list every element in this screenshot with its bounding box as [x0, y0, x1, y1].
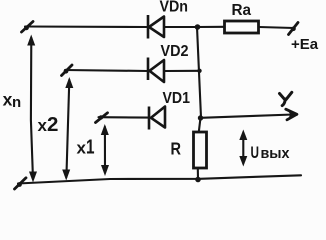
svg-text:+Ea: +Ea — [291, 36, 319, 53]
svg-text:вых: вых — [261, 145, 291, 162]
svg-text:x2: x2 — [38, 113, 59, 136]
svg-text:Ra: Ra — [232, 2, 252, 19]
svg-text:U: U — [251, 143, 260, 162]
svg-text:VDn: VDn — [160, 0, 189, 16]
svg-text:n: n — [12, 94, 21, 111]
svg-text:VD1: VD1 — [163, 90, 191, 107]
svg-text:x1: x1 — [77, 137, 95, 159]
svg-text:VD2: VD2 — [161, 43, 189, 60]
svg-text:R: R — [171, 139, 182, 159]
